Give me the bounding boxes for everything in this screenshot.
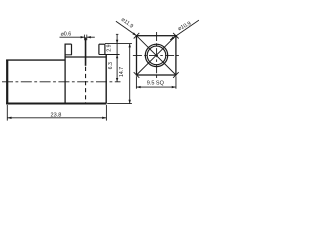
23.8 arrow left [7, 117, 11, 119]
right tab right edge [104, 44, 106, 54]
arrow up to seam level [116, 55, 118, 59]
svg-text:9.5 SQ: 9.5 SQ [147, 80, 165, 86]
chamfer BR [173, 72, 179, 78]
9.5sq arrow left [136, 86, 140, 88]
phi0.6 arrow right [87, 36, 91, 38]
side view centerline [2, 81, 121, 83]
svg-text:14.7: 14.7 [119, 67, 125, 77]
barrel top edge [6, 59, 65, 61]
phi0.6 arrow left [81, 36, 85, 38]
square flange outline [137, 36, 176, 75]
small circle [147, 46, 166, 65]
center pin solid [85, 37, 87, 65]
dim line 14.7 [129, 44, 131, 104]
diagonal TL-BR [137, 36, 176, 75]
tab top reference line [105, 43, 132, 45]
diagonal BL-TR [137, 36, 176, 75]
arrow down to tab top level [116, 40, 118, 44]
right tab left edge [98, 44, 100, 54]
phi11.9 leader [116, 21, 137, 36]
9.5sq ext right [175, 76, 177, 89]
jack body left face [6, 60, 8, 104]
9.5sq ext left [135, 76, 137, 89]
arrow down to centerline [116, 78, 118, 82]
chamfer TR [173, 33, 179, 39]
svg-text:6.3: 6.3 [108, 62, 114, 69]
14.7 arrow top [129, 44, 131, 48]
body circle large [145, 44, 167, 66]
23.8 dim line [7, 117, 106, 119]
svg-text:23.8: 23.8 [50, 112, 61, 118]
23.8 ext line left [6, 105, 8, 121]
23.8 arrow right [102, 117, 106, 119]
phi10.9 leader [170, 20, 199, 40]
phi0.6 ext tick left [84, 35, 86, 41]
chamfer BL [134, 72, 140, 78]
body right face [105, 55, 107, 104]
phi0.6 dim line left [60, 36, 85, 38]
serif top of dim line [116, 33, 119, 35]
chamfer TL [134, 33, 140, 39]
phi0.6 dim line right [87, 36, 95, 38]
right tab top [99, 43, 105, 45]
block top edge [65, 56, 106, 58]
square V centerline [156, 32, 158, 79]
left tab right edge [71, 44, 73, 55]
14.7 arrow bottom [129, 100, 131, 104]
left tab bottom seam [65, 54, 72, 56]
tab bottom seam and 2.9 reference line [99, 54, 120, 56]
phi0.6 ext tick right [86, 35, 88, 41]
step vertical barrel-to-block [64, 44, 66, 103]
phi11.9 arrowhead [133, 32, 137, 35]
svg-text:⌀0.6: ⌀0.6 [61, 32, 72, 38]
bottom edge extension for 14.7 [107, 103, 132, 105]
9.5sq arrow right [172, 86, 176, 88]
left tab top [65, 43, 72, 45]
svg-text:2.9: 2.9 [107, 44, 113, 51]
square H centerline [133, 54, 180, 56]
23.8 ext line right [105, 105, 107, 121]
center pin hidden line [85, 67, 87, 103]
dim line 2.9 and 6.3 [116, 34, 118, 82]
9.5sq dim line [136, 86, 176, 88]
phi10.9 arrowhead [170, 37, 174, 40]
body bottom edge [6, 103, 106, 105]
